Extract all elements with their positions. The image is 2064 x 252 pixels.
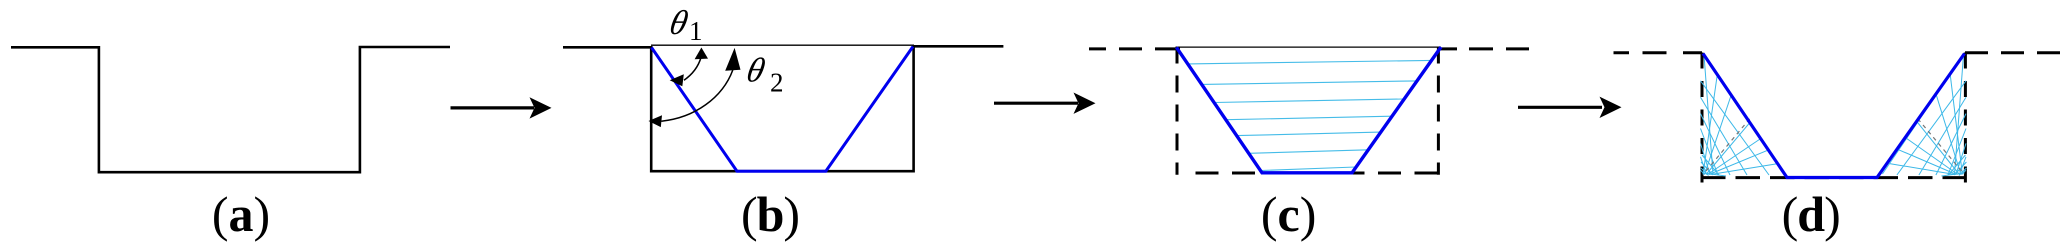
theta_2 curved arrow: [649, 48, 741, 127]
panel (c) dashed right wall: [1437, 47, 1440, 175]
panel (d) right corner dashed bisector: [1916, 116, 1962, 171]
panel (c) dashed bottom: [1196, 172, 1442, 175]
svg-text:1: 1: [689, 16, 703, 46]
arrow 3: [1518, 97, 1622, 118]
panel (c) dashed top-right surface: [1441, 47, 1529, 50]
panel (b) thin surface line: [651, 44, 914, 46]
panel (c) thin surface line: [1176, 46, 1441, 48]
svg-text:(a): (a): [212, 186, 270, 242]
arrow 1: [451, 97, 552, 118]
panel (d) left corner cyan ray fan: [1701, 55, 1786, 176]
panel (d) right corner cyan ray fan: [1882, 55, 1966, 176]
svg-text:2: 2: [770, 68, 784, 98]
panel (c) dashed left wall: [1176, 47, 1179, 175]
svg-text:(b): (b): [741, 186, 799, 242]
panel (d) dashed right wall: [1964, 53, 1967, 184]
panel (c) cyan hatch lines: [1188, 60, 1432, 170]
panel (b) blue trapezoid profile: [652, 47, 914, 172]
panel (b) trench outline (black): [563, 46, 1003, 171]
panel (d) dashed bottom: [1701, 176, 1965, 179]
panel (d) blue trapezoid profile: [1703, 54, 1965, 178]
panel (d) dashed top-left surface: [1614, 51, 1703, 54]
svg-text:(c): (c): [1261, 186, 1317, 242]
panel (d) dashed left wall: [1701, 53, 1704, 184]
panel (d) left corner dashed bisector: [1706, 116, 1752, 171]
svg-text:θ: θ: [666, 3, 691, 42]
arrow 2: [994, 93, 1096, 114]
theta_1 curved arrow: [670, 48, 708, 87]
panel (c) blue trapezoid profile: [1176, 47, 1441, 173]
panel (d) dashed top-right surface: [1965, 51, 2064, 54]
svg-text:(d): (d): [1782, 186, 1840, 242]
panel (c) dashed top-left surface: [1089, 47, 1180, 50]
panel (a) trench outline: [11, 47, 450, 172]
svg-text:θ: θ: [743, 51, 768, 90]
